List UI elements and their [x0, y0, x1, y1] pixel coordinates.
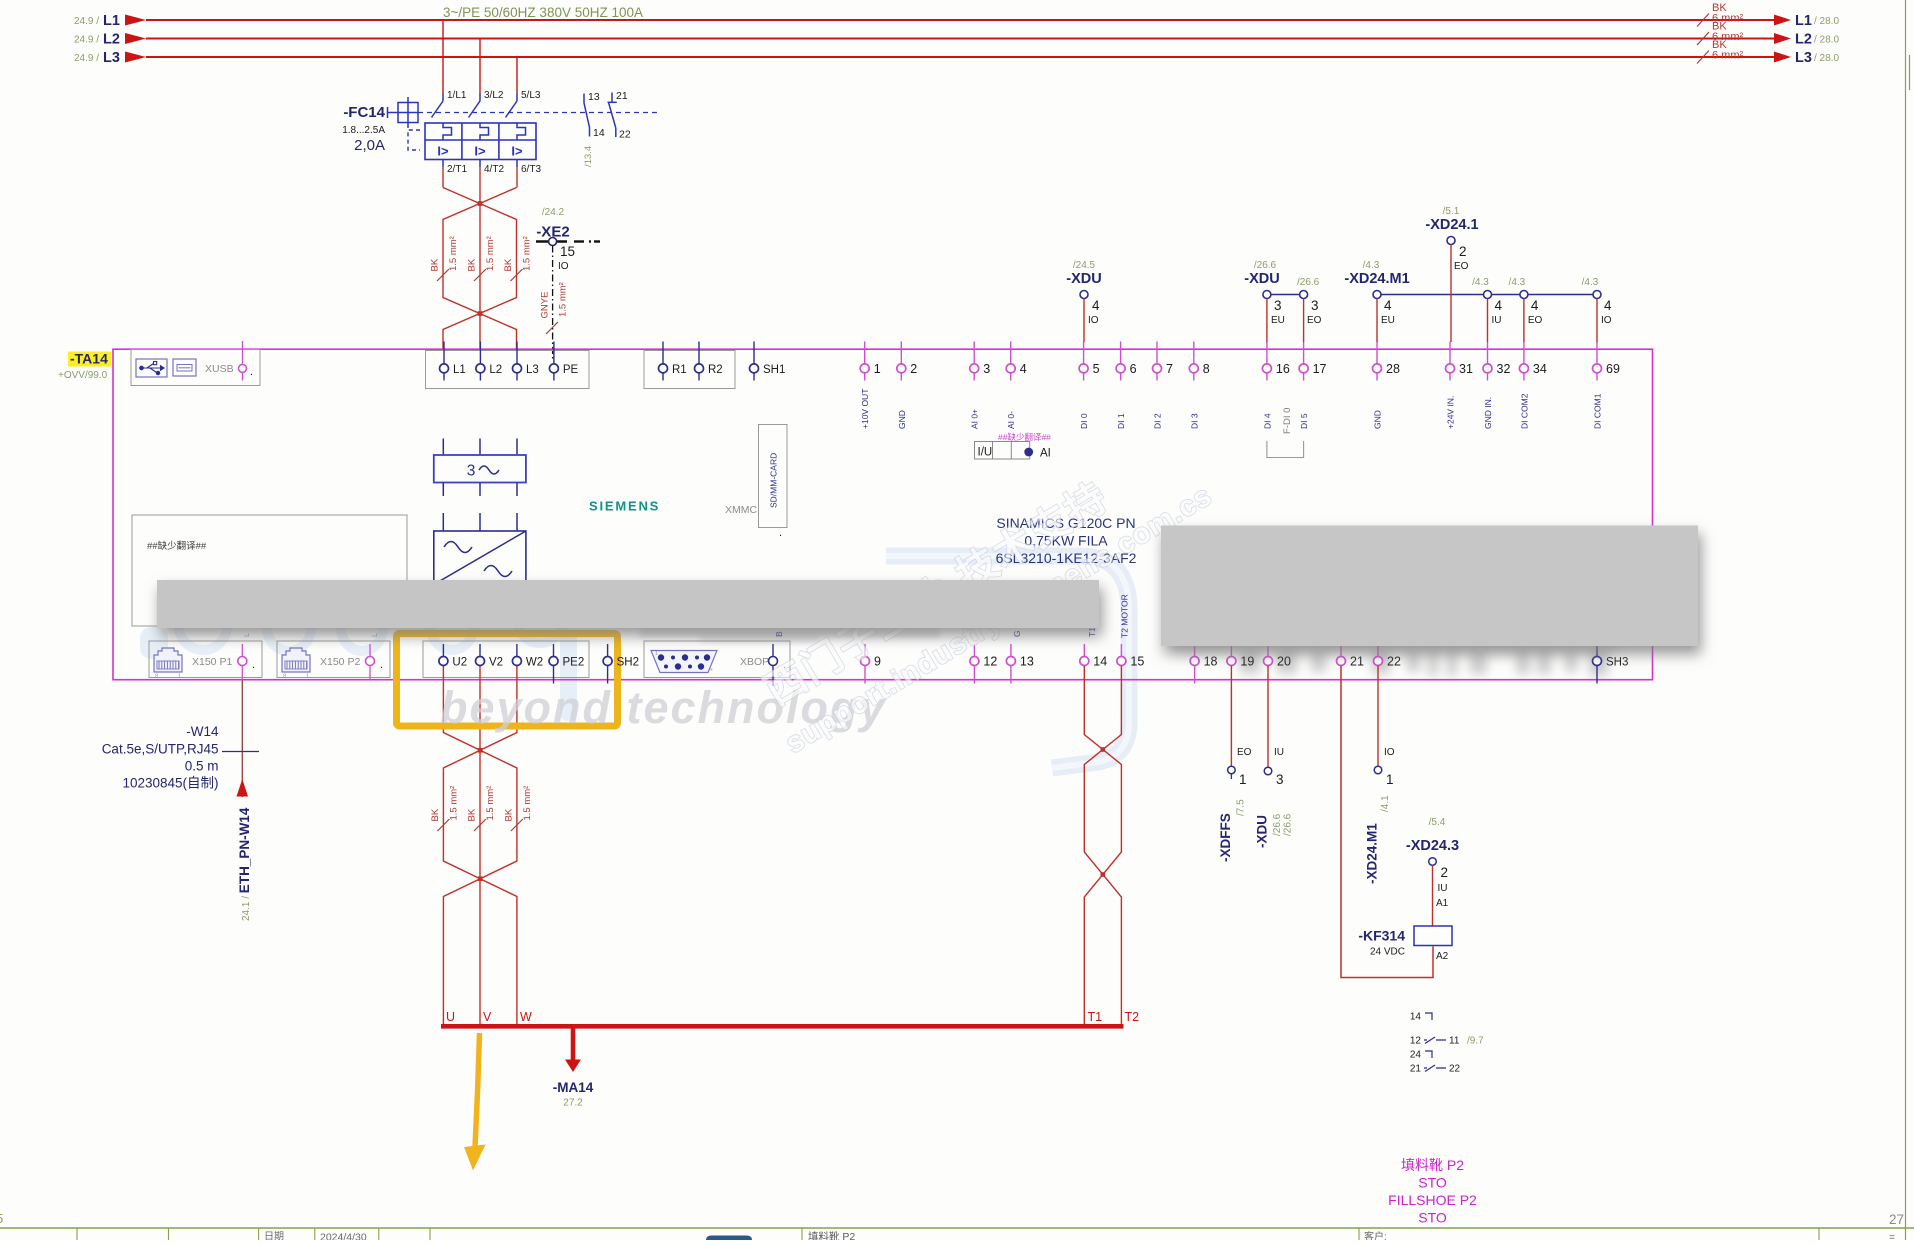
svg-text:1/L1: 1/L1 — [447, 90, 467, 101]
terminal pin 34 top row — [1523, 342, 1525, 364]
connector box R1 R2 — [644, 351, 735, 389]
svg-text:31: 31 — [1459, 362, 1473, 376]
node L1 source arrow left — [125, 15, 146, 26]
F-DI bracket — [1267, 441, 1304, 458]
svg-text:IO: IO — [558, 261, 569, 272]
svg-text:3: 3 — [467, 463, 476, 480]
svg-text:L1: L1 — [1795, 13, 1812, 29]
svg-text:4: 4 — [1531, 298, 1539, 313]
terminal pin 17 top row — [1303, 342, 1305, 364]
svg-text:13: 13 — [588, 91, 600, 103]
terminal pin 22 bottom row — [1377, 644, 1379, 656]
svg-text:1.5 mm²: 1.5 mm² — [485, 236, 496, 271]
svg-text:1: 1 — [1386, 772, 1394, 787]
svg-text:/4.3: /4.3 — [1363, 260, 1380, 271]
svg-text:R2: R2 — [708, 364, 723, 376]
FC14 aux contact 21/22 — [611, 93, 613, 103]
svg-text:2024/4/30: 2024/4/30 — [320, 1232, 367, 1241]
svg-text:XBOP: XBOP — [740, 656, 769, 668]
node L2 source arrow left — [125, 33, 146, 44]
svg-text:BK: BK — [467, 808, 478, 821]
svg-text:填料靴 P2: 填料靴 P2 — [808, 1230, 855, 1240]
svg-text:DI 5: DI 5 — [1299, 413, 1309, 429]
svg-text:日期: 日期 — [264, 1231, 284, 1241]
terminal pin 13 bottom row — [1010, 644, 1012, 656]
FC14 aux contact 13/14 — [583, 94, 585, 104]
svg-text:-XDU: -XDU — [1244, 271, 1279, 287]
analog selector I/U box — [975, 442, 1030, 460]
wire PE green/yellow dash-dot — [552, 246, 554, 361]
watermark diagonal chinese — [758, 475, 1218, 760]
svg-text:W: W — [520, 1010, 532, 1024]
svg-text:.: . — [779, 527, 782, 539]
terminal pin 69 top row — [1596, 342, 1598, 364]
svg-text:R1: R1 — [672, 364, 687, 376]
wire T1 crossing — [1084, 666, 1121, 1026]
svg-text:AI 0+: AI 0+ — [970, 409, 980, 429]
svg-text:20: 20 — [1277, 655, 1291, 669]
svg-text:BK: BK — [467, 258, 478, 271]
svg-text:IO: IO — [1384, 747, 1395, 758]
XD24.M1 node 4 EU — [1373, 291, 1381, 299]
svg-text:/ 28.0: / 28.0 — [1814, 35, 1839, 46]
svg-text:=: = — [1889, 1233, 1895, 1241]
terminal pin 32 top row — [1487, 342, 1489, 364]
connector X150 P1 — [149, 641, 262, 678]
terminal pin 31 top row — [1449, 342, 1451, 364]
svg-text:4: 4 — [1384, 298, 1392, 313]
FC14 trip bracket dashed — [408, 130, 420, 150]
svg-text:11: 11 — [1449, 1036, 1460, 1047]
terminal pin 7 top row — [1156, 342, 1158, 364]
svg-text:-XDU: -XDU — [1066, 271, 1101, 287]
wire T2 crossing — [1084, 666, 1121, 1026]
terminal pin 14 bottom row — [1083, 644, 1085, 656]
redaction gray box right — [1161, 526, 1698, 647]
svg-text:DI 0: DI 0 — [1079, 413, 1089, 429]
svg-text:A1: A1 — [1436, 898, 1449, 909]
translation-missing sub box — [132, 515, 407, 626]
wire 4/T2 red — [479, 167, 481, 350]
svg-text:5/L3: 5/L3 — [521, 90, 541, 101]
page frame bottom line — [0, 1227, 1914, 1229]
terminal pin U2 bottom row — [442, 644, 444, 656]
svg-text:X150 P1: X150 P1 — [192, 656, 232, 668]
svg-text:27: 27 — [1889, 1212, 1904, 1227]
svg-text:AI 0-: AI 0- — [1006, 411, 1016, 429]
svg-text:SH1: SH1 — [763, 364, 785, 376]
terminal pin PE2 bottom row — [553, 644, 555, 656]
terminal pin 1 top row — [864, 342, 866, 364]
svg-text:Cat.5e,S/UTP,RJ45: Cat.5e,S/UTP,RJ45 — [102, 742, 219, 757]
motor protection switch -FC14 — [342, 90, 660, 175]
svg-text:1.5 mm²: 1.5 mm² — [558, 282, 569, 317]
wire label BK 1.5mm2 at x=443 — [437, 269, 449, 281]
svg-text:4: 4 — [1092, 298, 1100, 313]
svg-text:STO: STO — [1418, 1175, 1447, 1191]
svg-text:L1: L1 — [453, 364, 466, 376]
svg-text:.: . — [380, 659, 383, 671]
svg-text:/26.6: /26.6 — [1254, 260, 1277, 271]
svg-text:19: 19 — [1240, 655, 1254, 669]
terminal pin 12 bottom row — [973, 644, 975, 656]
wire crossing bundle upper — [443, 188, 517, 351]
connector X150 P2 — [277, 641, 390, 678]
svg-text:x: x — [710, 667, 713, 673]
svg-text:15: 15 — [1130, 655, 1144, 669]
svg-text:EO: EO — [1237, 747, 1252, 758]
XD24.M1 node 4 IO — [1593, 291, 1601, 299]
svg-text:XMMC: XMMC — [725, 504, 757, 516]
terminal -XDFFS pin 1 EO — [1230, 666, 1232, 766]
svg-text:IU: IU — [1438, 883, 1448, 894]
terminal pin L3 top row — [516, 342, 518, 364]
FC14 pole 3/L2/4/T2 — [479, 94, 481, 102]
svg-text:-W14: -W14 — [186, 724, 219, 739]
FC14 thermal/magnetic trip box — [425, 123, 536, 160]
FC14 mechanical linkage dashed — [418, 112, 660, 114]
svg-text:3: 3 — [1311, 298, 1319, 313]
terminal -XDU pin 3 IU — [1267, 666, 1269, 767]
svg-text:/4.3: /4.3 — [1582, 277, 1599, 288]
svg-text:L3: L3 — [1795, 50, 1812, 66]
svg-text:4: 4 — [1020, 362, 1027, 376]
wire label BK 1.5mm2 at x=480 — [474, 269, 486, 281]
connector box L1 L2 L3 PE — [426, 351, 590, 389]
svg-text:3: 3 — [1276, 772, 1284, 787]
svg-text:21: 21 — [616, 90, 628, 102]
svg-text:3: 3 — [1274, 298, 1282, 313]
svg-text:2: 2 — [1459, 244, 1467, 259]
connector box U2 V2 W2 PE2 — [423, 641, 589, 678]
terminal pin 8 top row — [1193, 342, 1195, 364]
svg-text:SH2: SH2 — [617, 657, 639, 669]
terminal pin 21 bottom row — [1340, 644, 1342, 656]
svg-text:T2 MOTOR: T2 MOTOR — [1120, 594, 1130, 638]
wire V2 to motor — [479, 666, 481, 1026]
svg-text:/ 28.0: / 28.0 — [1814, 53, 1839, 64]
svg-text:-XD24.M1: -XD24.M1 — [1365, 823, 1380, 884]
FC14 pole 5/L3/6/T3 — [516, 94, 518, 102]
terminal pin SH2 bottom row — [607, 644, 609, 656]
title block logo sliver — [706, 1236, 752, 1241]
svg-text:EO: EO — [1307, 315, 1322, 326]
title block cells — [76, 1228, 78, 1240]
svg-text:18: 18 — [1204, 655, 1218, 669]
svg-text:L3: L3 — [526, 364, 539, 376]
svg-text:L3: L3 — [103, 50, 120, 66]
cable -W14 wire — [241, 680, 243, 797]
svg-text:DI COM1: DI COM1 — [1593, 393, 1603, 429]
svg-text:10230845(自制): 10230845(自制) — [122, 776, 218, 791]
terminal pin 18 bottom row — [1194, 644, 1196, 656]
svg-text:FILLSHOE P2: FILLSHOE P2 — [1388, 1192, 1477, 1208]
svg-text:12: 12 — [983, 655, 997, 669]
svg-text:-XDFFS: -XDFFS — [1218, 813, 1233, 862]
svg-text:3~/PE 50/60HZ 380V 50HZ 100A: 3~/PE 50/60HZ 380V 50HZ 100A — [443, 5, 643, 20]
wire L2 drop — [479, 39, 481, 95]
svg-text:1: 1 — [1239, 772, 1247, 787]
frequency converter -TA14 outline — [113, 349, 1653, 680]
svg-text:15: 15 — [560, 244, 575, 259]
svg-text:2,0A: 2,0A — [354, 137, 385, 154]
svg-text:IU: IU — [1492, 315, 1502, 326]
svg-text:4: 4 — [1495, 298, 1503, 313]
svg-text:X150 P2: X150 P2 — [320, 656, 360, 668]
svg-text:17: 17 — [1313, 362, 1327, 376]
svg-text:3: 3 — [983, 362, 990, 376]
terminal pin 19 bottom row — [1230, 644, 1232, 656]
svg-text:+24V IN.: +24V IN. — [1446, 396, 1456, 429]
svg-text:4/T2: 4/T2 — [484, 164, 504, 175]
svg-text:/4.3: /4.3 — [1472, 277, 1489, 288]
svg-text:+OVV/99.0: +OVV/99.0 — [58, 370, 108, 381]
svg-text:-MA14: -MA14 — [553, 1080, 594, 1095]
svg-text:IO: IO — [1601, 315, 1612, 326]
wire XD24.3 to KF314 A1 — [1432, 865, 1434, 926]
terminal pin 6 top row — [1120, 342, 1122, 364]
svg-text:/5.4: /5.4 — [1429, 817, 1446, 828]
svg-text:22: 22 — [619, 129, 631, 141]
terminal pin 4 top row — [1010, 342, 1012, 364]
watermark logo letter fragments left — [179, 589, 564, 651]
svg-text:T1: T1 — [1087, 627, 1097, 637]
svg-text:1.5 mm²: 1.5 mm² — [522, 236, 533, 271]
svg-text:V2: V2 — [489, 657, 503, 669]
node L2 target arrow right — [1774, 33, 1791, 44]
svg-text:/26.6: /26.6 — [1283, 813, 1294, 836]
svg-text:.: . — [252, 659, 255, 671]
svg-text:22: 22 — [1449, 1064, 1461, 1075]
svg-text:DI COM2: DI COM2 — [1519, 393, 1529, 429]
svg-text:W2: W2 — [526, 657, 543, 669]
connector XUSB — [131, 350, 260, 386]
svg-text:U: U — [446, 1010, 455, 1024]
XD24.M1 node 4 IU — [1484, 291, 1492, 299]
svg-text:1: 1 — [655, 651, 658, 657]
svg-text:6 mm²: 6 mm² — [1712, 50, 1744, 62]
node L3 target arrow right — [1774, 52, 1791, 63]
svg-text:3/L2: 3/L2 — [484, 90, 504, 101]
svg-text:A2: A2 — [1436, 951, 1449, 962]
wire W2 to motor crossing — [443, 666, 517, 1026]
svg-text:PE: PE — [563, 364, 579, 376]
drive input block 3~ — [442, 439, 444, 456]
connector XBOP DB9 — [644, 641, 790, 678]
svg-text:EO: EO — [1528, 315, 1543, 326]
terminal pin 20 bottom row — [1267, 644, 1269, 656]
svg-text:AI: AI — [1040, 448, 1051, 460]
svg-text:69: 69 — [1606, 362, 1620, 376]
svg-text:L: L — [242, 633, 251, 637]
svg-text:1: 1 — [874, 362, 881, 376]
svg-text:/24.5: /24.5 — [1073, 260, 1096, 271]
terminal pin 3 top row — [973, 342, 975, 364]
svg-text:16: 16 — [1276, 362, 1290, 376]
svg-text:/9.7: /9.7 — [1467, 1036, 1484, 1047]
svg-text:T1: T1 — [1088, 1010, 1103, 1024]
svg-text:I>: I> — [511, 144, 523, 159]
svg-text:6/T3: 6/T3 — [521, 164, 541, 175]
svg-text:5: 5 — [0, 1211, 3, 1226]
svg-text:/4.3: /4.3 — [1509, 277, 1526, 288]
ghost redacted letters below right gray box — [1180, 646, 1620, 676]
terminal pin 28 top row — [1376, 342, 1378, 364]
svg-text:BK: BK — [430, 258, 441, 271]
terminal pin SH3 bottom row — [1596, 644, 1598, 656]
svg-text:EO: EO — [1454, 261, 1469, 272]
wire label BK 1.5mm2 motor at x=516.9 — [511, 819, 523, 831]
svg-text:GND IN.: GND IN. — [1483, 397, 1493, 429]
svg-text:+10V OUT: +10V OUT — [860, 389, 870, 429]
wire L1 power line — [146, 19, 1775, 21]
motor bus thick red — [441, 1024, 1124, 1029]
svg-text:IU: IU — [1274, 747, 1284, 758]
svg-text:-XD24.3: -XD24.3 — [1406, 838, 1459, 854]
wire L3 drop — [516, 57, 518, 94]
svg-text:L2: L2 — [489, 364, 502, 376]
svg-text:B: B — [774, 631, 784, 637]
node L3 source arrow left — [125, 52, 146, 63]
svg-text:T2: T2 — [1125, 1010, 1140, 1024]
svg-text:13: 13 — [1020, 655, 1034, 669]
wire XDU to pin 17 — [1303, 299, 1305, 343]
svg-text:27.2: 27.2 — [563, 1098, 583, 1109]
watermark logo swoosh — [886, 556, 1129, 768]
svg-text:EU: EU — [1271, 315, 1285, 326]
terminal pin L1 top row — [443, 342, 445, 364]
svg-text:14: 14 — [1410, 1012, 1422, 1023]
svg-text:1.5 mm²: 1.5 mm² — [485, 786, 496, 821]
arrow to motor -MA14 — [571, 1028, 576, 1061]
svg-text:L1: L1 — [103, 13, 120, 29]
svg-text:/4.1: /4.1 — [1380, 795, 1391, 812]
svg-text:BK: BK — [503, 808, 514, 821]
terminal pin 9 bottom row — [864, 644, 866, 656]
svg-text:L2: L2 — [1795, 32, 1812, 48]
svg-text:I>: I> — [474, 144, 486, 159]
svg-text:L: L — [370, 633, 379, 637]
wire 2/T1 red — [442, 167, 444, 188]
svg-text:-XD24.M1: -XD24.M1 — [1344, 271, 1409, 287]
terminal pin SH1 top row — [753, 342, 755, 364]
svg-text:/13.4: /13.4 — [583, 146, 594, 167]
device tag -TA14 — [68, 352, 111, 367]
svg-text:/26.6: /26.6 — [1297, 277, 1320, 288]
svg-text:24.9 /: 24.9 / — [74, 35, 99, 46]
svg-text:##缺少翻译##: ##缺少翻译## — [147, 540, 207, 552]
drive rectifier/inverter block — [434, 531, 526, 585]
svg-text:U2: U2 — [452, 657, 467, 669]
terminal pin 15 bottom row — [1120, 644, 1122, 656]
redaction gray box left — [157, 580, 1099, 628]
svg-text:32: 32 — [1497, 362, 1511, 376]
svg-text:/7.5: /7.5 — [1236, 799, 1247, 816]
svg-text:6: 6 — [1130, 362, 1137, 376]
svg-text:28: 28 — [1386, 362, 1400, 376]
terminal pin 5 top row — [1083, 342, 1085, 364]
wire L1 drop — [442, 20, 444, 94]
svg-text:1.5 mm²: 1.5 mm² — [522, 786, 533, 821]
svg-text:7: 7 — [1166, 362, 1173, 376]
svg-text:0.5 m: 0.5 m — [185, 759, 219, 774]
annotation yellow arrow — [475, 1033, 480, 1147]
terminal pin V2 bottom row — [479, 644, 481, 656]
svg-text:5: 5 — [1093, 362, 1100, 376]
svg-text:GNYE: GNYE — [540, 292, 551, 319]
svg-text:-FC14: -FC14 — [343, 104, 385, 121]
svg-text:SIEMENS: SIEMENS — [589, 499, 660, 514]
svg-text:/5.1: /5.1 — [1443, 206, 1460, 217]
svg-text:客户:: 客户: — [1364, 1230, 1387, 1240]
svg-text:-TA14: -TA14 — [70, 351, 108, 367]
svg-text:2/T1: 2/T1 — [447, 164, 467, 175]
svg-text:1.8...2.5A: 1.8...2.5A — [342, 125, 385, 136]
wire XDU to pin 16 — [1266, 299, 1268, 343]
svg-text:/ 28.0: / 28.0 — [1814, 16, 1839, 27]
svg-text:DI 3: DI 3 — [1189, 413, 1199, 429]
terminal pin L2 top row — [479, 342, 481, 364]
svg-text:G: G — [1012, 630, 1022, 637]
svg-text:12: 12 — [1410, 1036, 1422, 1047]
svg-text:/24.2: /24.2 — [542, 207, 565, 218]
svg-text:GND: GND — [1373, 410, 1383, 429]
terminal pin 16 top row — [1266, 342, 1268, 364]
svg-text:BK: BK — [430, 808, 441, 821]
svg-text:BK: BK — [503, 258, 514, 271]
XD24.M1 node 4 EO — [1520, 291, 1528, 299]
svg-text:DI 2: DI 2 — [1153, 413, 1163, 429]
svg-text:##缺少翻译##: ##缺少翻译## — [998, 432, 1051, 442]
wire 6/T3 red — [516, 167, 518, 188]
terminal pin W2 bottom row — [516, 644, 518, 656]
svg-text:14: 14 — [593, 127, 605, 139]
svg-text:2: 2 — [910, 362, 917, 376]
wire label BK 1.5mm2 motor at x=480 — [474, 819, 486, 831]
svg-text:24.9 /: 24.9 / — [74, 16, 99, 27]
svg-text:EU: EU — [1381, 315, 1395, 326]
wire L2 power line — [146, 38, 1775, 40]
FC14 pole 1/L1/2/T1 — [442, 94, 444, 102]
wire L3 power line — [146, 56, 1775, 58]
svg-text:L2: L2 — [103, 32, 120, 48]
svg-text:SD/MM-CARD: SD/MM-CARD — [769, 453, 779, 508]
svg-text:22: 22 — [1387, 655, 1401, 669]
annotation highlight yellow box — [397, 634, 618, 727]
svg-text:24 VDC: 24 VDC — [1370, 947, 1405, 958]
svg-text:21: 21 — [1350, 655, 1364, 669]
svg-text:-XDU: -XDU — [1255, 815, 1270, 848]
svg-text:24: 24 — [1410, 1050, 1422, 1061]
svg-text:8: 8 — [1203, 362, 1210, 376]
svg-text:SH3: SH3 — [1606, 657, 1628, 669]
svg-text:STO: STO — [1418, 1210, 1447, 1226]
svg-text:填料靴 P2: 填料靴 P2 — [1401, 1157, 1464, 1173]
svg-text:2: 2 — [1441, 865, 1449, 880]
svg-text:/26.6: /26.6 — [1272, 813, 1283, 836]
svg-text:21: 21 — [1410, 1064, 1422, 1075]
svg-text:F-DI 0: F-DI 0 — [1282, 408, 1293, 434]
svg-text:-XD24.1: -XD24.1 — [1425, 217, 1478, 233]
wire label BK 1.5mm2 at x=516.5 — [511, 269, 523, 281]
wire pin 21 to KF314 A2 — [1341, 666, 1433, 978]
svg-text:14: 14 — [1093, 655, 1107, 669]
terminal pin R2 top row — [698, 342, 700, 364]
svg-text:1.5 mm²: 1.5 mm² — [448, 786, 459, 821]
wire XD24.1 to pin 31 — [1450, 245, 1452, 343]
node L1 target arrow right — [1774, 15, 1791, 26]
svg-text:4: 4 — [1604, 298, 1612, 313]
